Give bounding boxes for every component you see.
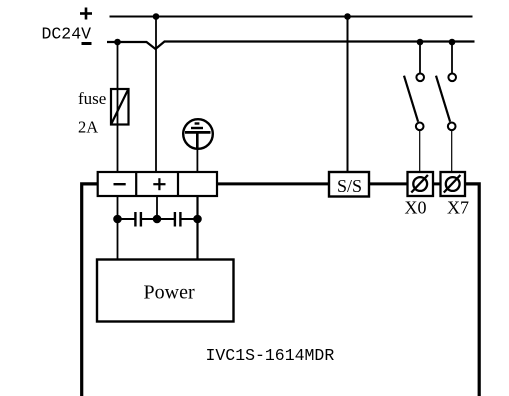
wire: terminal block to S/S box	[217, 182, 329, 185]
label: + polarity of DC24V	[80, 8, 92, 20]
wire: X7 switch bottom contact down to X7 terminal	[451, 130, 453, 172]
X0 terminal box with input symbol	[408, 172, 434, 196]
label: + terminal	[153, 178, 165, 190]
svg-text:fuse: fuse	[78, 89, 106, 108]
wire: +24V rail down to + terminal	[155, 17, 157, 173]
wire: + terminal down to capacitor node	[156, 196, 158, 219]
terminal block outline	[98, 172, 217, 196]
wire: +24V rail down to S/S terminal	[347, 17, 349, 173]
fuse F1	[111, 89, 129, 125]
wire: S/S box to X0 box	[369, 182, 408, 185]
terminal − cell divider	[135, 172, 137, 196]
wire: − terminal down to power supply	[117, 196, 119, 260]
junction dot: FG wire at capacitor row	[193, 215, 202, 224]
capacitor C1 lead wires	[118, 218, 158, 220]
PLC enclosure right edge	[465, 184, 479, 396]
capacitor C1 plates	[135, 212, 141, 227]
svg-text:X7: X7	[447, 198, 469, 218]
S/S terminal box	[329, 172, 369, 197]
X7 terminal box with input symbol	[441, 172, 466, 196]
capacitor C2 plates	[175, 212, 181, 227]
wire: 0V rail with crossover hop at +V wire	[107, 42, 475, 50]
switch SW1 (X0 input)	[404, 74, 424, 131]
terminal + cell divider	[177, 172, 179, 196]
wire: FG terminal down to power supply	[196, 196, 198, 260]
label: − terminal	[114, 183, 126, 185]
wire: 0V rail down to X0 switch top contact	[419, 42, 421, 74]
junction dot: 0V rail to fuse wire	[114, 39, 121, 46]
wire: X0 switch bottom contact down to X0 terminal	[419, 130, 421, 172]
junction dot: − wire at capacitor row	[113, 215, 122, 224]
wire: earth circle down to FG terminal	[196, 148, 198, 172]
svg-text:X0: X0	[405, 198, 427, 218]
svg-text:S/S: S/S	[337, 176, 362, 196]
power supply box	[97, 260, 234, 322]
svg-text:DC24V: DC24V	[42, 25, 92, 44]
svg-text:IVC1S-1614MDR: IVC1S-1614MDR	[206, 346, 335, 365]
svg-text:Power: Power	[144, 282, 195, 304]
wire: 0V rail down through fuse to − terminal	[117, 42, 119, 172]
junction dot: + wire at capacitor row	[153, 215, 162, 224]
earth terminal symbol in circle	[183, 119, 213, 149]
junction dot: +24V rail to S/S drop wire	[344, 13, 351, 20]
switch SW2 (X7 input)	[436, 74, 456, 131]
junction dot: 0V rail to X0 switch wire	[417, 39, 424, 46]
label: − polarity of DC24V	[82, 42, 92, 45]
wire: X0 box to X7 box	[433, 182, 441, 185]
PLC enclosure left edge	[82, 184, 98, 396]
capacitor C2 lead wires	[157, 218, 198, 220]
junction dot: 0V rail to X7 switch wire	[449, 39, 456, 46]
svg-text:2A: 2A	[78, 118, 98, 137]
wire: 0V rail down to X7 switch top contact	[451, 42, 453, 74]
wire: +24V top rail	[110, 16, 473, 18]
junction dot: +24V rail to +V drop wire	[153, 13, 160, 20]
